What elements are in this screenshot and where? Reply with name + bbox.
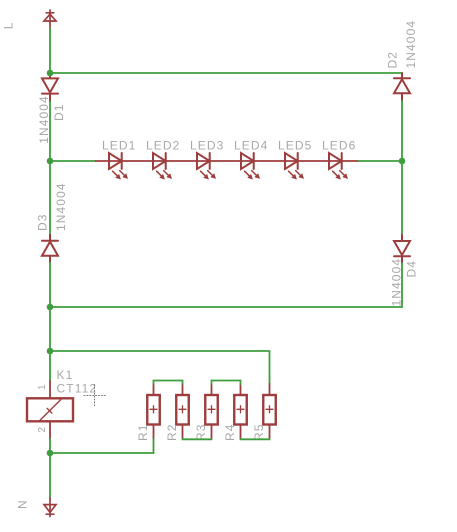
wire L to top rail: [49, 29, 51, 74]
svg-text:D3: D3: [36, 213, 50, 231]
svg-text:LED1: LED1: [102, 139, 136, 153]
svg-text:LED6: LED6: [322, 139, 356, 153]
wire R1 bottom to junction: [50, 439, 154, 453]
wire LED row left down to D3: [49, 161, 51, 235]
LED LED1: [109, 153, 128, 180]
svg-text:CT112: CT112: [57, 382, 98, 396]
junction K1 row: [47, 348, 54, 355]
resistor R5: [263, 384, 276, 439]
svg-text:R1: R1: [136, 423, 150, 441]
wire top rail: [50, 72, 402, 74]
wire D4 down to bottom rail: [50, 263, 402, 307]
diode D1: [42, 73, 58, 101]
junction top-left: [47, 70, 54, 77]
wire bridge R1-R2 top: [154, 381, 183, 385]
LED LED4: [241, 153, 260, 180]
wire bridge R4-R5 bottom: [241, 438, 270, 441]
svg-text:1N4004: 1N4004: [37, 95, 51, 144]
K1 origin cross: [84, 385, 107, 407]
svg-text:1: 1: [37, 384, 48, 390]
svg-text:LED3: LED3: [190, 139, 224, 153]
LED LED3: [197, 153, 216, 180]
wire K1 row to R5 top: [50, 351, 270, 384]
wire LED chain (red pin line): [96, 160, 359, 162]
wire bottom rail to K1 row: [49, 307, 51, 351]
relay coil K1: [27, 351, 73, 439]
junction LED row right: [399, 158, 406, 165]
svg-text:LED4: LED4: [234, 139, 268, 153]
wire D3 to bottom rail: [49, 263, 51, 308]
resistor R1: [147, 384, 160, 439]
svg-text:N: N: [16, 499, 30, 509]
diode D4: [394, 235, 410, 263]
junction bottom: [47, 450, 54, 457]
resistor R2: [176, 384, 189, 439]
svg-text:D2: D2: [386, 51, 400, 69]
wire D1 to LED row: [49, 101, 51, 161]
svg-text:D1: D1: [52, 103, 66, 121]
wire junction to N pin: [49, 453, 51, 498]
resistor R4: [234, 384, 247, 439]
svg-text:LED2: LED2: [146, 139, 180, 153]
resistor R3: [205, 384, 218, 439]
LED LED6: [329, 153, 348, 180]
LED LED5: [285, 153, 304, 180]
svg-text:R2: R2: [165, 423, 179, 441]
svg-text:R5: R5: [252, 423, 266, 441]
wire LED6 to right rail: [359, 160, 403, 162]
svg-text:K1: K1: [57, 368, 74, 382]
svg-text:R4: R4: [223, 423, 237, 441]
wire D2 to LED row right: [401, 101, 403, 161]
svg-text:R3: R3: [194, 423, 208, 441]
svg-text:1N4004: 1N4004: [54, 182, 68, 231]
diode D3: [42, 235, 58, 263]
svg-text:L: L: [2, 21, 16, 29]
junction LED row left: [47, 158, 54, 165]
pin N: [44, 498, 56, 517]
wire K1 pin2 to junction: [49, 439, 51, 453]
pin L: [44, 10, 56, 29]
junction bottom rail left: [47, 304, 54, 311]
svg-text:2: 2: [37, 426, 48, 432]
wire to LED1: [50, 160, 96, 162]
svg-text:1N4004: 1N4004: [404, 20, 418, 69]
diode D2: [394, 73, 410, 101]
wire bridge R2-R3 bottom: [183, 438, 212, 441]
svg-text:LED5: LED5: [278, 139, 312, 153]
wire bridge R3-R4 top: [212, 381, 241, 385]
svg-text:D4: D4: [405, 260, 419, 278]
LED LED2: [153, 153, 172, 180]
wire LED row right down to D4: [401, 161, 403, 235]
